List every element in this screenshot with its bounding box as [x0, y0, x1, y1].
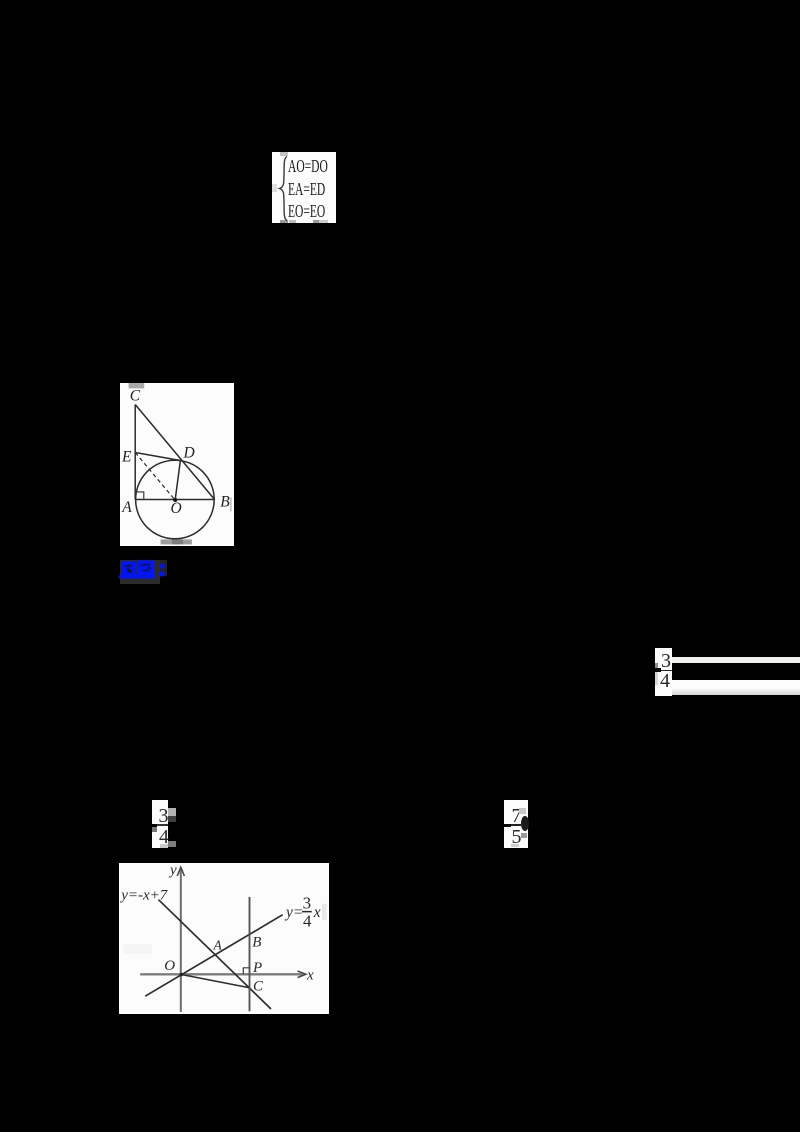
equation line EA=ED	[288, 179, 328, 200]
middle fraction left-edge black dash	[504, 824, 511, 828]
faint smudge	[123, 944, 152, 954]
middle fraction numerator 7	[512, 805, 522, 828]
left fraction left-edge black dash	[152, 824, 157, 828]
vertical line through B,P,C	[249, 897, 251, 1011]
blue remark text (two CJK chars + colon)	[118, 558, 168, 582]
figure top gray notch	[128, 383, 144, 388]
equation box bottom notches	[280, 220, 289, 224]
right fraction denominator 4	[660, 670, 670, 693]
svg-text:4: 4	[303, 911, 312, 930]
middle fraction top-right gray	[519, 808, 525, 814]
svg-text:B: B	[253, 935, 262, 951]
equation line EO=EO	[288, 201, 328, 222]
left brace of system	[277, 155, 289, 222]
left fraction right gray blocks	[168, 808, 175, 817]
equation box left gray notch	[272, 184, 277, 192]
figure bottom gray notch	[160, 539, 191, 544]
svg-text:3: 3	[303, 893, 312, 912]
center dot O	[173, 498, 177, 502]
segment DO	[175, 460, 180, 499]
fraction 3/4 at right margin	[655, 648, 672, 696]
x-axis	[141, 973, 304, 975]
fraction 3/4 (left)	[152, 800, 168, 848]
right angle mark at P	[244, 968, 250, 974]
origin dot	[180, 973, 184, 977]
svg-text:C: C	[253, 978, 264, 994]
y-axis	[180, 869, 182, 1012]
white strip lower, to right edge	[672, 680, 800, 695]
geometry figure: circle O with triangle	[120, 383, 234, 546]
y-axis arrowhead	[177, 867, 184, 876]
blue remark label backdrop	[120, 560, 160, 585]
dashed segment EO	[135, 452, 175, 500]
gray block right of y=3/4x label	[322, 904, 327, 920]
svg-text:C: C	[129, 387, 140, 404]
svg-text:x: x	[306, 967, 314, 983]
right fraction left-edge black dash	[655, 668, 661, 672]
middle fraction denominator 5	[512, 826, 522, 849]
middle fraction bar	[508, 824, 521, 826]
equation line AO=DO	[288, 156, 328, 177]
coordinate graph figure	[119, 863, 329, 1014]
middle fraction dark blob right	[521, 816, 529, 831]
segment CB	[135, 404, 214, 499]
svg-text:y=-x+7: y=-x+7	[120, 887, 169, 903]
left fraction denominator 4	[159, 826, 169, 849]
fraction 7/5 (middle)	[504, 800, 528, 849]
x-axis arrowhead	[298, 971, 306, 978]
equation box top gray notch	[280, 152, 288, 156]
right angle mark at A	[135, 492, 144, 500]
segment AB	[135, 498, 214, 500]
svg-text:A: A	[121, 499, 132, 516]
svg-text:O: O	[165, 958, 176, 974]
svg-text:D: D	[182, 444, 194, 461]
svg-text:y=: y=	[284, 904, 303, 921]
svg-text:O: O	[170, 500, 181, 517]
left fraction bar	[155, 824, 168, 826]
line y=-x+7	[159, 900, 271, 1009]
colon	[159, 564, 164, 569]
svg-text:E: E	[121, 448, 132, 465]
segment OC	[182, 974, 250, 987]
right fraction bar	[657, 670, 673, 672]
svg-text:B: B	[220, 493, 230, 510]
figure white background	[120, 383, 234, 546]
equation system box	[272, 152, 336, 224]
segment CA	[134, 404, 136, 499]
middle fraction bottom grays	[521, 833, 527, 839]
left fraction numerator 3	[159, 805, 169, 828]
gray tick right of B	[230, 497, 232, 511]
graph white background	[119, 863, 329, 1014]
line y=3/4x	[146, 915, 283, 996]
right fraction numerator 3	[661, 650, 671, 673]
svg-text:y: y	[168, 863, 177, 878]
circle O	[135, 460, 214, 539]
segment ED	[135, 452, 180, 460]
svg-text:x: x	[313, 904, 321, 921]
svg-text:A: A	[213, 937, 223, 952]
label fraction bar	[302, 911, 312, 912]
white strip upper, to right edge	[672, 657, 800, 664]
svg-text:P: P	[252, 960, 262, 976]
